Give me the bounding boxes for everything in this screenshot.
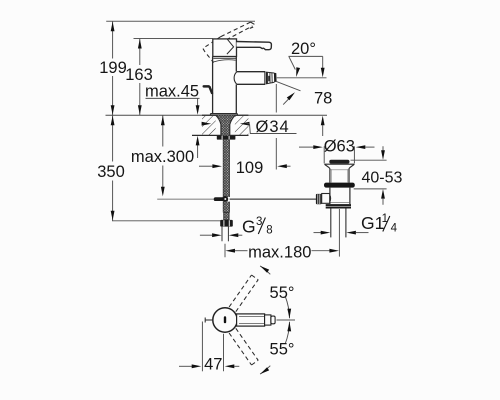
dimension 78 line	[322, 56, 324, 68]
aerator level extension line	[277, 77, 327, 79]
dimension 40-53	[382, 146, 384, 151]
top view spout stub	[205, 319, 213, 321]
aerator collar line	[264, 72, 266, 84]
pop-up waste lock rings	[326, 204, 351, 206]
svg-text:max.45: max.45	[145, 83, 199, 101]
pop-up waste cone top	[325, 163, 355, 165]
dimension max.45 arrows already above; dimension 109	[199, 165, 213, 167]
ball joint ball	[222, 196, 228, 202]
faucet base plate	[210, 113, 237, 115]
pop-up pull rod elbow	[209, 86, 212, 94]
pop-up waste flange	[324, 183, 355, 188]
dimension 350 line	[112, 115, 114, 221]
spray direction arrow	[283, 95, 292, 105]
mounting nut	[217, 136, 236, 140]
svg-text:8: 8	[266, 225, 272, 237]
top view dashed lever up 55	[229, 275, 258, 312]
spray direction line	[276, 81, 301, 91]
svg-text:40-53: 40-53	[362, 169, 403, 186]
svg-text:G: G	[242, 217, 256, 237]
threaded shank fill	[216, 115, 235, 135]
aerator body edges	[266, 72, 274, 84]
dimension 199 line	[112, 21, 114, 115]
svg-text:4: 4	[391, 223, 398, 235]
hose crimp ferrule	[224, 213, 229, 220]
dimension max.300 line	[162, 115, 164, 188]
svg-text:78: 78	[314, 90, 332, 108]
svg-text:Ø34: Ø34	[256, 118, 290, 136]
dimension 47 arrows	[179, 365, 192, 367]
countertop bottom line	[192, 134, 249, 136]
svg-text:max.300: max.300	[131, 148, 194, 166]
shank funnel right wall	[230, 115, 235, 135]
shank funnel left wall	[216, 115, 221, 135]
dashed lever heel (rotated head outline)	[203, 37, 221, 63]
countertop top line	[106, 114, 328, 116]
svg-text:163: 163	[125, 66, 153, 84]
top view faucet body circle	[213, 308, 237, 332]
flexible hose braid upper	[223, 140, 229, 197]
rod clevis knob	[316, 194, 322, 204]
pop-up pull rod knob	[203, 85, 211, 88]
aerator axis extension line	[275, 84, 277, 113]
top view cartridge tick	[224, 316, 226, 323]
faucet body sides	[212, 57, 214, 114]
angle arc upper 55	[260, 266, 289, 318]
faucet head step under	[213, 57, 236, 59]
G3/8 thread stub walls	[221, 227, 223, 242]
svg-text:55°: 55°	[270, 284, 295, 302]
ball joint arm	[214, 197, 225, 201]
top view lever end cap	[271, 316, 275, 324]
G3/8 connection nut	[220, 220, 233, 227]
label O34 leader	[202, 122, 212, 126]
extension line bottom of hose (350)	[112, 220, 223, 222]
spout rounded back	[234, 72, 237, 84]
pop-up horizontal rod left thin part	[157, 198, 214, 200]
aerator middle dark detail	[268, 76, 270, 82]
top view dashed lever down 55	[229, 328, 258, 365]
pop-up waste cone sides	[325, 164, 355, 168]
dimension G3/8 arrows	[200, 234, 212, 236]
top view lever neck	[265, 315, 271, 325]
svg-text:350: 350	[97, 163, 125, 181]
dimension max.45 underline and arrows	[146, 97, 200, 99]
top view lever main bar	[237, 314, 265, 326]
svg-text:199: 199	[99, 59, 127, 77]
dimension 163 line	[139, 39, 141, 116]
pop-up waste neck	[329, 169, 331, 183]
rod clevis body	[322, 194, 330, 204]
svg-text:20°: 20°	[291, 40, 316, 58]
pop-up waste plug cap	[329, 160, 349, 164]
pop-up waste tailpipe walls	[330, 209, 332, 238]
flexible hose braid lower	[223, 202, 229, 213]
svg-text:max.180: max.180	[248, 243, 311, 261]
dimension 47 extension lines	[201, 322, 203, 372]
faucet head (cartridge housing)	[213, 39, 237, 57]
angle arc lower 55	[260, 322, 289, 374]
reference line top of raised lever (199)	[106, 20, 255, 22]
faucet body top ellipse arc	[213, 60, 235, 62]
svg-text:55°: 55°	[270, 341, 295, 359]
svg-text:Ø63: Ø63	[324, 138, 355, 156]
dimension max.180	[224, 244, 226, 257]
dashed raised lever	[221, 22, 254, 40]
aerator end dark band	[274, 73, 277, 83]
dimension O63	[299, 146, 314, 148]
reference line top of head (163)	[134, 38, 213, 40]
dimension G1 1/4 arrows	[314, 232, 322, 234]
countertop hatching	[202, 116, 216, 135]
faucet head inner zigzag detail	[227, 39, 234, 54]
svg-text:47: 47	[204, 355, 222, 373]
aerator first dark ring	[266, 72, 268, 84]
svg-text:109: 109	[236, 159, 264, 177]
pop-up horizontal rod main part	[230, 198, 317, 200]
pop-up waste lower body	[329, 188, 331, 205]
spout tube top and bottom	[237, 71, 266, 73]
solid lever handle	[237, 42, 272, 50]
dimension 20 degrees leader	[289, 55, 323, 57]
top view centerline	[277, 319, 296, 321]
